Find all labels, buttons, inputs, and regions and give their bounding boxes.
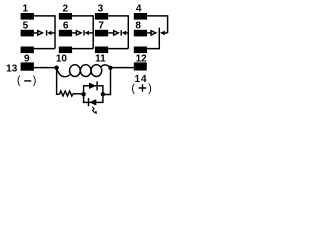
relay coil L1 [57, 68, 70, 77]
svg-text:): ) [148, 83, 152, 95]
terminal pin 2 [59, 3, 72, 19]
polarity label (-) [17, 75, 37, 87]
svg-text:4: 4 [136, 3, 142, 14]
svg-text:): ) [33, 75, 37, 87]
movable blade contact pole 4 [160, 15, 168, 35]
svg-text:(: ( [131, 83, 135, 95]
svg-text:13: 13 [6, 63, 18, 74]
terminal pin 8 with NO contact arrow [134, 21, 156, 37]
wire node A down to resistor [57, 68, 60, 95]
node C (diode pair left junction) [81, 92, 85, 96]
svg-text:1: 1 [23, 3, 29, 14]
fixed contact bar to pin 12 [147, 28, 159, 49]
terminal pin 7 with NO contact arrow [95, 21, 118, 37]
node B (right coil junction) [108, 66, 112, 70]
terminal pin 9 [21, 47, 34, 65]
terminal pin 5 with NO contact arrow [21, 21, 43, 37]
wire blade 2 to pin 10 [72, 48, 93, 50]
terminal pin 12 [134, 47, 147, 65]
terminal pin 1 [21, 3, 34, 19]
diode D1 (reverse polarity protection) [89, 81, 97, 90]
terminal pin 11 [95, 47, 108, 65]
wire node D to node B [103, 68, 111, 95]
svg-text:2: 2 [63, 3, 69, 14]
node D (diode pair right junction) [101, 92, 105, 96]
resistor R1 [60, 91, 73, 96]
movable blade contact pole 1 [47, 15, 55, 48]
diode pair frame [84, 86, 103, 103]
movable blade contact pole 2 [84, 15, 93, 48]
terminal pin 10 [56, 47, 72, 65]
LED indicator D2 [89, 98, 97, 114]
polarity label (+) [131, 83, 151, 95]
svg-text:14: 14 [135, 74, 148, 85]
node A (left coil junction) [54, 66, 58, 70]
svg-text:3: 3 [98, 3, 104, 14]
wire blade 1 to pin 9 [34, 48, 55, 50]
svg-text:(: ( [17, 75, 21, 87]
terminal pin 4 [134, 3, 147, 19]
terminal pin 14 (coil plus) [134, 62, 148, 85]
svg-text:10: 10 [56, 53, 68, 64]
wire node B to pin 14 [111, 67, 134, 69]
wire pin 3 to blade 3 [108, 15, 128, 17]
wire pin 13 to node A [34, 67, 57, 69]
terminal pin 3 [95, 3, 108, 19]
wire blade 3 to pin 11 [108, 48, 128, 50]
terminal pin 6 with NO contact arrow [59, 21, 81, 37]
wire pin 1 to blade 1 [34, 15, 55, 17]
wire pin 4 to blade 4 [147, 15, 168, 17]
terminal pin 13 (coil minus) [6, 62, 34, 74]
wire pin 2 to blade 2 [72, 15, 93, 17]
movable blade contact pole 3 [121, 15, 128, 48]
wire resistor to node C [73, 93, 84, 95]
svg-text:11: 11 [95, 53, 106, 64]
